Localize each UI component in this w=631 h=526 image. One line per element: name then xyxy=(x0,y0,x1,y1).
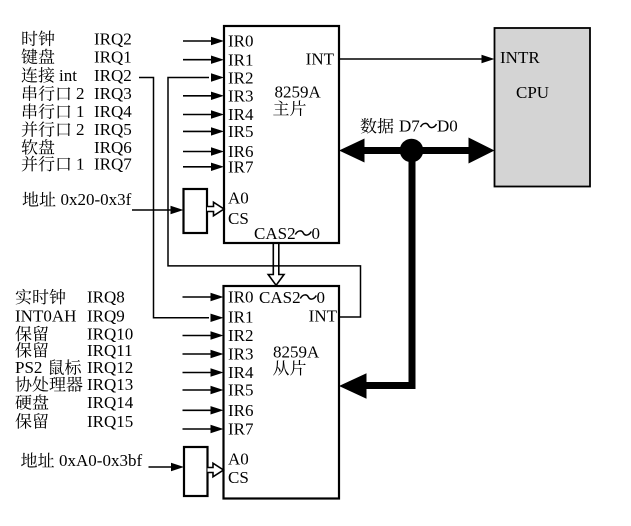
svg-text:8259A: 8259A xyxy=(275,83,322,102)
svg-text:IRQ14: IRQ14 xyxy=(87,393,134,412)
svg-text:IR0: IR0 xyxy=(228,288,254,307)
svg-text:IRQ5: IRQ5 xyxy=(94,120,132,139)
svg-text:INT: INT xyxy=(306,50,335,69)
value label 地址 0xA0-0x3bf (slave address) xyxy=(21,451,142,470)
svg-text:IR3: IR3 xyxy=(228,87,254,106)
pin label IR7 (slave) xyxy=(228,420,254,439)
pin label CAS2~0 (master bottom) xyxy=(254,224,320,243)
value label 8259A (slave) xyxy=(273,343,320,362)
svg-text:IR2: IR2 xyxy=(228,326,254,345)
node IRQ12 source label: PS2 mouse xyxy=(15,358,133,377)
wire IRQ arrow into slave IR2 xyxy=(183,331,224,339)
svg-text:IRQ2: IRQ2 xyxy=(94,66,132,85)
svg-text:IRQ15: IRQ15 xyxy=(87,412,133,431)
svg-text:IR5: IR5 xyxy=(228,381,254,400)
pin label IR0 (slave) xyxy=(228,288,254,307)
node IRQ14 source label: hard disk xyxy=(15,393,133,412)
pin label IR7 (master) xyxy=(228,158,254,177)
pin label IR3 (slave) xyxy=(228,345,254,364)
svg-text:IR0: IR0 xyxy=(228,32,254,51)
wire IRQ arrow into slave IR4 xyxy=(183,368,224,376)
svg-text:A0: A0 xyxy=(228,450,249,469)
wire data bus into slave xyxy=(339,373,416,399)
wire slave INT to master IR2 xyxy=(168,73,361,317)
node IRQ9 source label: INT0AH xyxy=(15,306,125,325)
IC U2: slave 8259A chip box xyxy=(224,286,340,499)
svg-text:1: 1 xyxy=(76,102,85,121)
IC U1: master 8259A chip box xyxy=(224,26,339,243)
node IRQ7 source label: parallel port 1 xyxy=(22,155,133,174)
value label 从片 slave designator xyxy=(273,360,306,376)
svg-text:IR7: IR7 xyxy=(228,158,254,177)
svg-text:INT0AH: INT0AH xyxy=(15,306,76,325)
node IRQ6 source label: floppy xyxy=(22,138,132,157)
node IRQ2 source label: clock xyxy=(22,29,131,48)
node A0/CS select arrow (slave decoder output) xyxy=(208,463,224,477)
value label 8259A (master) xyxy=(275,83,322,102)
pin label IR1 (master) xyxy=(228,50,254,69)
node A0/CS select arrow (master decoder output) xyxy=(207,202,224,216)
value label CPU xyxy=(516,83,549,102)
node data bus junction dot xyxy=(400,139,424,163)
svg-text:IRQ7: IRQ7 xyxy=(94,155,132,174)
svg-text:CPU: CPU xyxy=(516,83,549,102)
pin label INT (slave) xyxy=(309,307,338,326)
wire IRQ arrow into master IR5 xyxy=(183,127,224,135)
wire data bus vertical drop xyxy=(409,151,416,390)
svg-text:IRQ3: IRQ3 xyxy=(94,84,132,103)
node IRQ3 source label: serial port 2 xyxy=(23,84,132,103)
svg-text:IRQ13: IRQ13 xyxy=(87,375,133,394)
pin label A0 (slave) xyxy=(228,450,249,469)
wire IRQ arrow into slave IR5 xyxy=(183,386,224,394)
pin label IR6 (master) xyxy=(228,142,254,161)
svg-text:CS: CS xyxy=(228,468,249,487)
wire IRQ arrow into slave IR3 xyxy=(183,350,224,358)
svg-text:IR6: IR6 xyxy=(228,401,254,420)
wire IRQ arrow into slave IR7 xyxy=(183,425,224,433)
pin label INT (master) xyxy=(306,50,335,69)
svg-text:PS2: PS2 xyxy=(15,358,42,377)
svg-text:0xA0-0x3bf: 0xA0-0x3bf xyxy=(59,451,142,470)
node IRQ15 source label: reserved xyxy=(15,412,133,431)
svg-text:A0: A0 xyxy=(228,189,249,208)
net label 数据 D7~D0 (data bus) xyxy=(361,117,458,136)
pin label IR5 (master) xyxy=(228,122,254,141)
address decoder block (master) xyxy=(184,189,208,233)
svg-text:2: 2 xyxy=(76,84,85,103)
svg-text:D7: D7 xyxy=(399,117,420,136)
pin label IR0 (master) xyxy=(228,32,254,51)
wire master INT to CPU INTR xyxy=(340,55,495,63)
pin label INTR (CPU) xyxy=(500,48,540,67)
wire IRQ arrow into slave IR6 xyxy=(183,406,224,414)
wire IRQ arrow into master IR6 xyxy=(183,147,224,155)
svg-text:0: 0 xyxy=(317,288,326,307)
value label 地址 0x20-0x3f (master address) xyxy=(23,190,132,209)
svg-text:IR7: IR7 xyxy=(228,420,254,439)
svg-text:IRQ8: IRQ8 xyxy=(87,288,125,307)
svg-text:IR5: IR5 xyxy=(228,122,254,141)
pin label IR4 (master) xyxy=(228,105,254,124)
node IRQ13 source label: coprocessor xyxy=(16,375,134,394)
svg-text:INTR: INTR xyxy=(500,48,540,67)
wire data bus horizontal (master-CPU) xyxy=(339,138,495,164)
wire address line into master decoder xyxy=(132,206,184,214)
pin label A0 (master) xyxy=(228,189,249,208)
node IRQ11 source label: reserved xyxy=(15,341,132,360)
pin label IR5 (slave) xyxy=(228,381,254,400)
pin label CS (slave) xyxy=(228,468,249,487)
svg-text:IRQ4: IRQ4 xyxy=(94,102,132,121)
node IRQ4 source label: serial port 1 xyxy=(23,102,132,121)
pin label IR3 (master) xyxy=(228,87,254,106)
wire address line into slave decoder xyxy=(149,463,185,471)
svg-text:IR4: IR4 xyxy=(228,363,254,382)
node IRQ10 source label: reserved xyxy=(15,325,133,344)
svg-text:IRQ1: IRQ1 xyxy=(94,47,132,66)
address decoder block (slave) xyxy=(184,447,208,496)
svg-text:IR1: IR1 xyxy=(228,50,254,69)
svg-text:IRQ2: IRQ2 xyxy=(94,29,132,48)
wire cascade-int label to slave IR1 junction xyxy=(139,78,224,323)
svg-text:CAS2: CAS2 xyxy=(259,288,301,307)
pin label CAS2~0 (slave top) xyxy=(259,288,325,307)
svg-text:0: 0 xyxy=(312,224,321,243)
svg-text:int: int xyxy=(59,66,77,85)
svg-text:CAS2: CAS2 xyxy=(254,224,296,243)
svg-text:IR1: IR1 xyxy=(228,308,254,327)
wire CAS2~0 cascade bus master to slave (hollow down arrow) xyxy=(268,244,284,286)
node IRQ1 source label: keyboard xyxy=(22,47,132,66)
pin label CS (master) xyxy=(228,209,249,228)
node IRQ5 source label: parallel port 2 xyxy=(22,120,132,139)
svg-text:2: 2 xyxy=(76,120,85,139)
wire IRQ arrow into master IR0 xyxy=(183,37,224,45)
pin label IR1 (slave) xyxy=(228,308,254,327)
wire IRQ arrow into master IR1 xyxy=(183,56,224,64)
svg-text:D0: D0 xyxy=(437,117,458,136)
svg-text:IRQ9: IRQ9 xyxy=(87,306,125,325)
wire IRQ arrow into master IR4 xyxy=(183,110,224,118)
node IRQ8 source label: real-time clock xyxy=(16,288,125,307)
wire IRQ arrow into master IR3 xyxy=(183,92,224,100)
node IRQ2 source label: cascade int xyxy=(22,66,132,85)
value label 主片 master designator xyxy=(273,100,306,116)
svg-text:CS: CS xyxy=(228,209,249,228)
svg-text:0x20-0x3f: 0x20-0x3f xyxy=(61,190,132,209)
svg-text:IRQ11: IRQ11 xyxy=(87,341,133,360)
wire IRQ arrow into master IR7 xyxy=(183,163,224,171)
pin label IR2 (slave) xyxy=(228,326,254,345)
pin label IR2 (master) xyxy=(228,69,254,88)
svg-text:1: 1 xyxy=(76,155,85,174)
wire IRQ arrow into slave IR0 xyxy=(183,293,224,301)
svg-text:IR2: IR2 xyxy=(228,69,254,88)
pin label IR4 (slave) xyxy=(228,363,254,382)
svg-text:IR3: IR3 xyxy=(228,345,254,364)
pin label IR6 (slave) xyxy=(228,401,254,420)
svg-text:8259A: 8259A xyxy=(273,343,320,362)
CPU block xyxy=(495,28,591,187)
svg-text:INT: INT xyxy=(309,307,338,326)
